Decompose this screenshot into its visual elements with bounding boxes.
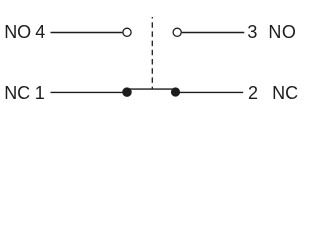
NC contact right filled dot <box>171 87 180 96</box>
NC movable contact bridge bar <box>126 88 177 90</box>
NO contact right open circle <box>173 28 181 36</box>
wire from terminal 4 to NO left contact <box>51 32 123 34</box>
svg-text:NC: NC <box>4 83 30 103</box>
svg-text:NO: NO <box>4 22 31 42</box>
wire from terminal 1 to NC left contact <box>51 91 127 93</box>
svg-text:NO: NO <box>268 22 296 42</box>
NC contact left filled dot <box>122 87 132 97</box>
svg-text:1: 1 <box>35 83 45 103</box>
svg-text:4: 4 <box>35 22 45 42</box>
actuator dashed link <box>151 17 153 89</box>
wire from NC right contact to terminal 2 <box>177 91 243 93</box>
NO contact left open circle <box>123 28 131 36</box>
wire from NO right contact to terminal 3 <box>182 32 244 34</box>
svg-text:NC: NC <box>272 83 298 103</box>
svg-text:2: 2 <box>248 83 258 103</box>
svg-text:3: 3 <box>247 22 257 42</box>
